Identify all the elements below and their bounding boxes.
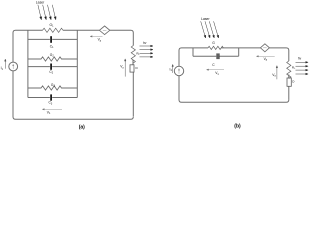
svg-text:V1: V1 — [47, 111, 51, 116]
svg-text:G1: G1 — [50, 23, 55, 28]
laser diode box (b) — [287, 78, 291, 86]
svg-text:Laser: Laser — [36, 1, 45, 5]
wire: right rail between resistor and box — [132, 60, 134, 65]
resistor G3 rung (a) — [28, 86, 77, 90]
svg-text:(b): (b) — [234, 124, 241, 130]
svg-text:G3: G3 — [51, 83, 56, 88]
inner ladder right rail (a) — [76, 30, 78, 97]
arrow inside source (b) — [178, 69, 179, 74]
output voltage arrow Vo (b) — [276, 66, 278, 80]
arrow under diamond (b) — [256, 56, 274, 58]
svg-text:RL: RL — [136, 51, 140, 56]
arrow under diamond (a) — [90, 36, 103, 38]
outer loop wires (b) — [179, 48, 289, 102]
svg-text:Vo: Vo — [120, 65, 124, 70]
capacitor C2 plates (a) — [50, 64, 52, 70]
svg-text:Laser: Laser — [201, 17, 210, 21]
capacitor C3 plates (a) — [50, 94, 52, 100]
wire: right rail lower — [288, 86, 290, 100]
laser beam arrows (b) — [201, 21, 219, 38]
capacitor C1 plates (a) — [50, 36, 52, 43]
svg-text:RL: RL — [292, 66, 296, 71]
resistor G on top wire (b) — [208, 46, 223, 49]
resistor G2 rung (a) — [28, 57, 77, 61]
capacitor C3 bottom wire (a) — [28, 97, 77, 99]
svg-text:D: D — [292, 80, 295, 84]
junction voltage arrow (b) — [206, 69, 224, 71]
svg-text:C3: C3 — [49, 101, 53, 106]
mark inside diamond (a) — [103, 29, 107, 31]
capacitor C1 rung wire (a) — [28, 38, 77, 40]
wire: top middle — [221, 47, 260, 49]
source current arrow (a) — [5, 59, 7, 69]
svg-text:(a): (a) — [79, 124, 85, 130]
svg-text:I1: I1 — [170, 67, 173, 72]
svg-text:hν: hν — [298, 56, 302, 60]
emission arrows hv (b) — [296, 61, 309, 74]
arrow inside source (a) — [13, 64, 14, 69]
wire: left rail lower — [13, 71, 16, 119]
svg-text:I1: I1 — [1, 66, 4, 71]
wire: left rail upper — [179, 48, 208, 66]
wire: top right — [110, 30, 134, 45]
svg-text:V1: V1 — [215, 71, 219, 76]
wire: bottom — [16, 117, 134, 120]
svg-text:Vp: Vp — [264, 57, 268, 62]
laser diode box (a) — [130, 65, 134, 72]
inner ladder left rail (a) — [27, 30, 29, 97]
laser beam arrows (a) — [38, 5, 56, 20]
bracket rail left (b) — [192, 48, 194, 56]
load resistor RL vertical (b) — [287, 61, 291, 79]
svg-text:C1: C1 — [50, 44, 54, 49]
svg-text:Vp: Vp — [98, 38, 102, 43]
voltage arrow V1 under ladder (a) — [42, 109, 62, 111]
wire: left rail lower — [179, 76, 182, 103]
svg-text:Vo: Vo — [272, 73, 276, 78]
svg-text:C: C — [212, 63, 215, 67]
source circle (b) — [174, 66, 183, 75]
capacitor C rung wire (b) — [193, 55, 239, 57]
load resistor RL vertical (a) — [131, 46, 135, 64]
photocurrent source circle (a) — [9, 62, 18, 71]
svg-text:C2: C2 — [49, 70, 53, 75]
wire: left rail upper — [13, 30, 43, 62]
wire: bottom — [182, 100, 289, 103]
svg-text:hν: hν — [143, 41, 147, 45]
capacitor C plates (b) — [217, 53, 218, 59]
source current arrow (b) — [172, 64, 174, 73]
wire: top right — [269, 48, 288, 61]
dependent source diamond (a) — [99, 26, 109, 35]
svg-text:G2: G2 — [50, 53, 55, 58]
resistor G1 on top wire (a) — [43, 28, 64, 32]
wire: right rail between resistor and box — [288, 75, 290, 79]
wire: top middle — [63, 29, 99, 31]
svg-text:G: G — [212, 41, 215, 45]
bracket rail right (b) — [238, 48, 240, 56]
output voltage arrow Vo (a) — [124, 59, 126, 77]
svg-text:D: D — [136, 66, 139, 70]
outer loop wires (a) — [13, 30, 133, 119]
mark inside diamond (b) — [263, 47, 267, 49]
wire: right rail lower — [132, 72, 134, 116]
capacitor C2 rung wire (a) — [28, 66, 77, 68]
dependent source diamond (b) — [260, 44, 269, 52]
emission arrows hv (a) — [140, 45, 154, 58]
